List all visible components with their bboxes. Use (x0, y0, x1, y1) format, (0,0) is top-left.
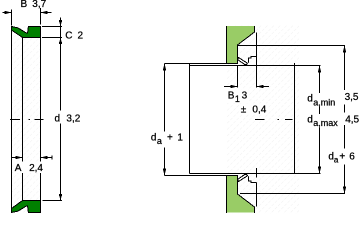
svg-text:a: a (334, 156, 339, 165)
svg-text:2: 2 (78, 30, 84, 41)
svg-text:A: A (15, 163, 22, 174)
svg-text:3,2: 3,2 (66, 113, 80, 124)
svg-text:4,5: 4,5 (345, 114, 359, 125)
svg-text:3: 3 (242, 91, 248, 102)
svg-text:d: d (307, 115, 313, 126)
svg-text:d: d (307, 94, 313, 105)
svg-text:6: 6 (349, 152, 355, 163)
svg-text:0,4: 0,4 (252, 104, 266, 115)
svg-text:±: ± (241, 104, 247, 115)
svg-text:a,min: a,min (313, 97, 335, 107)
svg-text:d: d (55, 113, 61, 124)
svg-text:B: B (21, 0, 28, 10)
svg-text:B: B (228, 91, 235, 102)
svg-text:2,4: 2,4 (29, 163, 43, 174)
svg-text:a,max: a,max (313, 118, 338, 128)
svg-text:d: d (151, 133, 157, 144)
svg-text:1: 1 (177, 133, 183, 144)
svg-text:1: 1 (235, 94, 240, 104)
svg-text:3,7: 3,7 (32, 0, 46, 10)
svg-text:+: + (167, 133, 173, 144)
svg-text:3,5: 3,5 (345, 92, 359, 103)
svg-text:C: C (65, 30, 72, 41)
svg-text:a: a (157, 136, 162, 146)
svg-text:+: + (339, 152, 345, 163)
